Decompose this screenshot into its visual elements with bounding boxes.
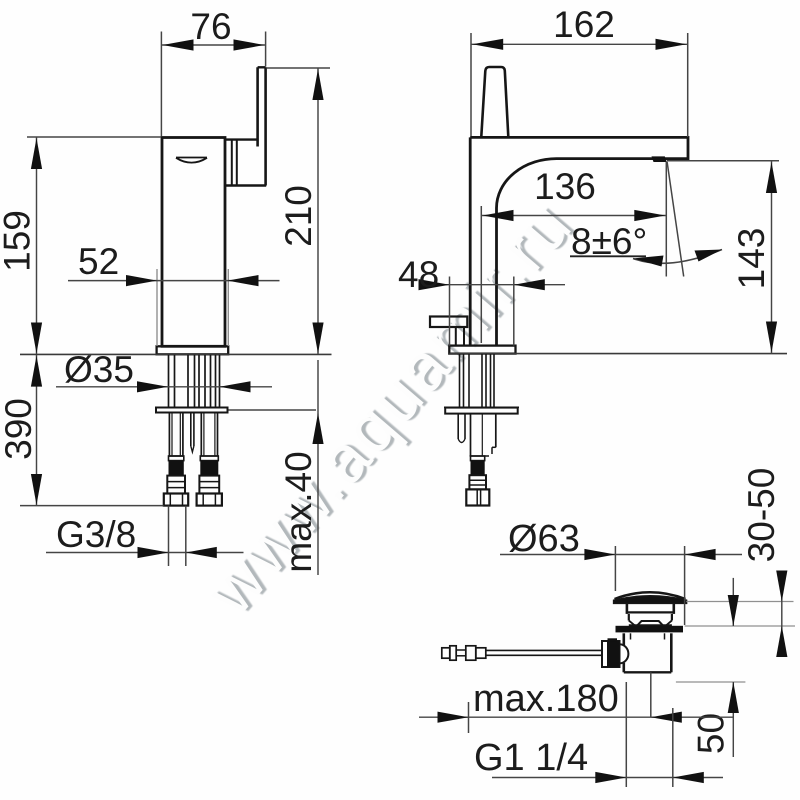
left hose threaded end (front view) — [167, 476, 185, 494]
faucet profile outline (side view) — [470, 137, 688, 345]
drain flange — [616, 626, 684, 633]
svg-text:162: 162 — [553, 4, 615, 45]
base plate (front view) — [157, 346, 229, 354]
dimension 30-50 line with arrows — [781, 571, 783, 657]
dimension max.180 line with arrows — [419, 716, 733, 718]
water stream reference line (side view) — [665, 162, 667, 277]
left hose nut G3/8 (front view) — [164, 494, 188, 506]
handle lever (side view) — [481, 67, 508, 137]
dimension 159 line with arrows — [36, 137, 38, 354]
pop-up drain cap — [615, 592, 686, 599]
mounting shank lines (front view) — [168, 355, 170, 407]
dimension 136 line with arrows — [481, 215, 666, 217]
mounting surface line (front view) — [20, 353, 332, 355]
spout outlet arc (front view) — [176, 158, 207, 163]
svg-text:50: 50 — [691, 713, 732, 754]
svg-text:159: 159 — [0, 210, 38, 272]
drain plug neck — [626, 603, 629, 614]
hose nut (side view) — [466, 489, 489, 505]
dimension 143 extension line top — [667, 160, 779, 162]
pull rod ball housing — [602, 641, 620, 667]
horizontal pull rod — [486, 649, 602, 651]
dimension 136 extension line — [480, 206, 482, 343]
dimension G3/8 extension lines — [168, 506, 170, 566]
threaded stud (side view) — [457, 414, 459, 439]
svg-text:30-50: 30-50 — [741, 468, 782, 563]
washer flange under counter (front view) — [155, 406, 229, 408]
pull rod knob (side view) — [430, 317, 467, 328]
dimension 390 line with arrows — [36, 355, 38, 506]
svg-text:Ø35: Ø35 — [64, 349, 134, 390]
dimension 48 extension lines — [449, 277, 451, 346]
handle lever plate (front view) — [256, 67, 259, 146]
dimension G1 1/4 line with arrows — [492, 777, 723, 779]
dimension 390 bottom extension — [20, 505, 164, 507]
dimension 52 extension lines — [156, 269, 158, 346]
dimension 50 extension line (gray) — [676, 681, 746, 683]
dimension O63 line with arrows — [500, 554, 742, 556]
hose threaded end (side view) — [469, 475, 486, 489]
washer flange (side view) — [444, 406, 519, 408]
left supply hose tube (front view) — [168, 413, 170, 457]
right supply hose tube (front view) — [200, 413, 202, 457]
supply hose tube (side view) — [470, 414, 472, 456]
svg-text:max.40: max.40 — [278, 451, 319, 572]
dimension 52 line with arrows — [68, 280, 280, 282]
drain plug lower ring — [628, 614, 630, 621]
svg-text:max.180: max.180 — [473, 678, 619, 720]
svg-text:136: 136 — [534, 166, 596, 207]
mounting shank lines (side view) — [459, 354, 461, 407]
left hose crimp (front view) — [169, 456, 184, 461]
right hose nut G3/8 (front view) — [197, 494, 222, 506]
drain plug center bump — [638, 621, 663, 625]
handle hub (front view) — [225, 138, 258, 140]
svg-text:G3/8: G3/8 — [56, 514, 136, 555]
dimension max.180 extension tick — [468, 702, 470, 733]
drain tail extension line — [650, 672, 652, 717]
hose crimp (side view) — [471, 456, 485, 461]
pull rod end knob — [442, 648, 450, 658]
drain body — [622, 633, 625, 645]
right hose crimp (front view) — [200, 456, 218, 461]
svg-text:210: 210 — [278, 185, 319, 247]
svg-text:76: 76 — [190, 6, 231, 47]
svg-text:48: 48 — [398, 254, 439, 295]
dimension 210/max.40 line with arrows — [317, 68, 319, 354]
mounting surface line (side view) — [449, 353, 787, 355]
center stud (front view) — [190, 413, 192, 447]
svg-text:143: 143 — [731, 228, 772, 290]
dimension 143 line with arrows — [771, 161, 773, 354]
base plate (side view) — [449, 346, 515, 354]
dimension 162 extension lines — [470, 33, 472, 136]
svg-text:390: 390 — [0, 398, 39, 460]
dimension 50 lines with arrows — [732, 578, 734, 626]
dimension 210 extension line — [267, 67, 331, 69]
dimension G3/8 line with arrows — [46, 552, 244, 554]
dimension 76 line with arrows — [161, 44, 265, 46]
dimension 76 extension lines — [160, 32, 162, 137]
watermark www.aquamir.ru — [191, 184, 591, 631]
dimension 159/390 datum extension top — [27, 136, 161, 138]
dimension O63 extension lines — [614, 546, 616, 591]
dimension G1 1/4 extension lines — [625, 682, 627, 787]
angle dimension arc with arrows — [633, 250, 722, 264]
washer extension line for max.40 — [229, 409, 317, 411]
faucet body (front view) — [162, 138, 225, 347]
dimension O35 line with arrows — [56, 386, 272, 388]
water stream angled line (side view) — [667, 162, 684, 277]
dimension 30-50 extension lines (gray) — [686, 601, 793, 603]
aerator outlet (side view) — [652, 156, 667, 162]
svg-text:G1 1/4: G1 1/4 — [474, 737, 588, 779]
dimension 48 line with arrows — [432, 284, 565, 286]
svg-text:52: 52 — [78, 241, 119, 282]
dimension 162 line with arrows — [471, 43, 688, 45]
svg-text:Ø63: Ø63 — [508, 518, 580, 560]
drain flange extension line (gray) — [685, 625, 795, 627]
right hose threaded end (front view) — [199, 476, 219, 494]
